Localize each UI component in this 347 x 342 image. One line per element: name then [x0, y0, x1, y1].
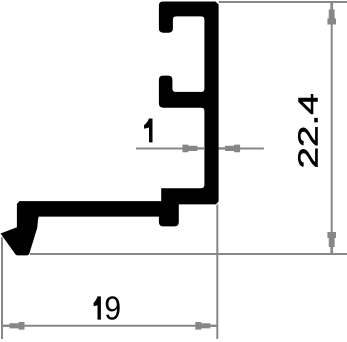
svg-text:22.4: 22.4: [293, 93, 325, 168]
svg-text:9: 9: [104, 289, 121, 327]
